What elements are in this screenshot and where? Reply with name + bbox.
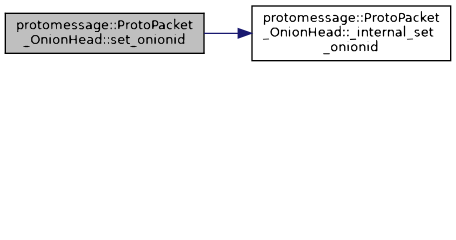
node Node1: protomessage::ProtoPacket_OnionHead::set_onionid (grey, current) [5, 13, 205, 54]
edge: set_onionid -> _internal_set_onionid (midnightblue) [204, 28, 253, 39]
node Node2: protomessage::ProtoPacket_OnionHead::_internal_set_onionid [252, 6, 451, 61]
label line 1: protomessage::ProtoPacket [17, 19, 193, 32]
label line 1: protomessage::ProtoPacket [264, 11, 440, 25]
label line 2: _OnionHead::set_onionid [17, 31, 184, 47]
label line 2: _OnionHead::_internal_set [263, 24, 434, 41]
label line 3: _onionid [323, 39, 377, 54]
